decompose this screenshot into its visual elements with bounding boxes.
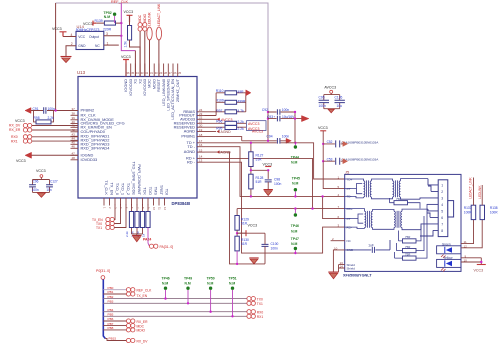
wire W1 AVCC3 filter rail <box>242 140 286 142</box>
svg-text:MDIO: MDIO <box>137 329 146 333</box>
wire W4 RD+ <box>205 158 313 208</box>
wire GND pin to ground <box>333 250 344 272</box>
svg-text:AVCC3: AVCC3 <box>324 85 336 89</box>
capacitor C100 100n <box>262 244 269 246</box>
svg-text:TX_CLK: TX_CLK <box>104 180 109 195</box>
svg-text:TP44: TP44 <box>291 155 299 159</box>
svg-text:TX0: TX0 <box>257 297 263 301</box>
svg-text:499R: 499R <box>238 99 247 103</box>
oscillator U14 <box>76 31 104 49</box>
svg-text:R98: R98 <box>34 116 40 120</box>
svg-text:25MHZ_OUT: 25MHZ_OUT <box>175 78 180 102</box>
svg-text:N.M: N.M <box>291 161 297 165</box>
svg-text:XF6500BYGNLT: XF6500BYGNLT <box>343 273 372 277</box>
svg-text:RX_DV: RX_DV <box>137 339 149 343</box>
svg-text:VCC3: VCC3 <box>83 22 93 26</box>
U13 top pin numbers <box>127 71 182 75</box>
svg-text:46: 46 <box>72 145 76 149</box>
power arrow at R110 right <box>246 90 251 96</box>
svg-text:RX_ER: RX_ER <box>137 320 149 324</box>
svg-text:LEDACT_LINK: LEDACT_LINK <box>469 176 473 198</box>
svg-text:LEDACT_LINK: LEDACT_LINK <box>157 3 161 26</box>
power arrow VCC at C93 <box>302 116 309 122</box>
svg-text:N.M: N.M <box>291 242 297 246</box>
capacitor C53 (part number) <box>323 160 342 162</box>
svg-text:2: 2 <box>71 42 73 46</box>
svg-text:TX_EN: TX_EN <box>137 294 148 298</box>
svg-text:220R: 220R <box>103 27 112 31</box>
svg-text:N.M: N.M <box>185 281 191 285</box>
svg-text:TRST: TRST <box>159 185 164 196</box>
svg-text:C52: C52 <box>327 140 333 144</box>
svg-text:100n: 100n <box>274 182 282 186</box>
testpoint TP44 <box>294 143 296 146</box>
node R127/R128 with VCC3 <box>251 167 268 179</box>
resistor R129 51R <box>236 209 238 216</box>
svg-text:6: 6 <box>441 216 443 220</box>
svg-text:C93: C93 <box>267 115 273 119</box>
ground under C98 <box>267 182 269 190</box>
wire W2 TD+ <box>205 143 345 179</box>
svg-text:RXD_3/PHYAD4: RXD_3/PHYAD4 <box>81 145 111 150</box>
resistor R95 2.2k row <box>205 126 247 128</box>
svg-text:TXD_0: TXD_0 <box>115 183 120 196</box>
resistor pulldown 2.2k (3) <box>142 204 144 234</box>
net AVCC3 at AVDD33 <box>205 118 220 120</box>
capacitor C92 100n <box>268 111 295 113</box>
svg-text:PA[31..0]: PA[31..0] <box>160 245 174 249</box>
power VCC3 bottom right <box>477 264 486 266</box>
svg-text:2.2k: 2.2k <box>238 120 245 124</box>
svg-text:19: 19 <box>199 128 203 132</box>
wire VCC3 vertical left <box>55 3 57 111</box>
net RX1 offpage right <box>247 314 256 318</box>
wire U14 pin 1 NC stub <box>104 44 119 46</box>
svg-text:1uF: 1uF <box>368 243 374 247</box>
svg-text:N.M: N.M <box>229 281 235 285</box>
svg-text:N.M: N.M <box>292 182 298 186</box>
svg-text:1: 1 <box>441 183 443 187</box>
capacitor C91 100n (series on PFBIN2) <box>43 107 47 114</box>
svg-text:AGND: AGND <box>221 130 232 134</box>
wire pins 9/10 to VCC3 <box>461 258 481 265</box>
svg-text:TX_EN: TX_EN <box>110 182 115 195</box>
capacitor C93 10u/16V <box>268 118 302 120</box>
svg-text:4.7k: 4.7k <box>238 109 245 113</box>
svg-text:N.M: N.M <box>291 229 297 233</box>
svg-text:2.2k: 2.2k <box>125 231 129 237</box>
U13 left pin numbers <box>72 107 76 160</box>
svg-text:C96: C96 <box>33 180 39 184</box>
svg-text:18: 18 <box>199 133 203 137</box>
ground under J5 <box>328 271 338 273</box>
svg-text:RX_ER: RX_ER <box>9 128 21 132</box>
svg-text:49R: 49R <box>238 90 245 94</box>
resistor R137 100R <box>471 205 476 219</box>
svg-text:RX_DV: RX_DV <box>9 124 21 128</box>
wires into pin block <box>420 179 438 236</box>
svg-text:100R: 100R <box>490 210 498 214</box>
svg-text:TDO: TDO <box>148 187 153 195</box>
bus P0 vertical <box>103 279 105 338</box>
J5 left pin labels <box>347 177 356 270</box>
svg-text:C53: C53 <box>327 158 333 162</box>
svg-text:C127: C127 <box>50 180 58 184</box>
svg-text:AGND: AGND <box>184 149 195 154</box>
U13 bottom pin labels (vertical) <box>104 161 170 195</box>
svg-text:TX1: TX1 <box>96 226 102 230</box>
node R129/R130 with VCC3 <box>237 230 246 236</box>
U13 left pin stubs <box>71 111 79 160</box>
svg-text:TMS: TMS <box>154 187 159 196</box>
svg-text:VCC3: VCC3 <box>263 163 273 167</box>
svg-text:1: 1 <box>107 41 109 45</box>
wire U14 pin 2 to ground <box>66 46 76 57</box>
svg-text:LEDLINK: LEDLINK <box>148 11 152 26</box>
svg-text:P0[31..0]: P0[31..0] <box>96 269 110 273</box>
svg-text:DP83848I: DP83848I <box>172 201 191 206</box>
svg-text:VCC3: VCC3 <box>52 27 62 31</box>
ground below U14 <box>61 56 72 58</box>
svg-text:TP49: TP49 <box>184 276 192 280</box>
svg-text:TP47: TP47 <box>291 237 299 241</box>
svg-text:RX0: RX0 <box>257 310 264 314</box>
svg-text:N.M: N.M <box>207 281 213 285</box>
wire REF_CLK top rail (lavender) <box>56 3 268 111</box>
net AGND at pin 19 <box>205 131 217 133</box>
net AGND at pin 15 + rail to bottom cluster <box>205 152 266 264</box>
svg-text:RX1: RX1 <box>11 139 18 143</box>
U13 left pin labels <box>81 108 125 162</box>
svg-text:R97: R97 <box>216 109 222 113</box>
wire U14 pin 3 output <box>104 35 122 37</box>
svg-text:TDI: TDI <box>165 189 170 195</box>
svg-text:TP45: TP45 <box>292 176 300 180</box>
ground under decap pair <box>37 193 45 198</box>
capacitor C94 100n (on W1) <box>277 138 281 144</box>
svg-text:TP51: TP51 <box>229 276 237 280</box>
wire PFBIN1 to W1 <box>205 137 242 141</box>
svg-text:R109: R109 <box>216 99 224 103</box>
svg-text:VCC: VCC <box>78 35 86 39</box>
svg-text:100n: 100n <box>32 188 39 192</box>
svg-text:LEDLINK: LEDLINK <box>478 185 482 199</box>
svg-text:VCC3: VCC3 <box>121 55 131 59</box>
svg-text:PWR_DOWN/INT: PWR_DOWN/INT <box>137 164 142 196</box>
resistor R128 51R <box>249 174 253 189</box>
wire CT6 jog <box>323 196 345 218</box>
svg-text:MDC: MDC <box>138 14 142 22</box>
svg-text:48: 48 <box>72 156 76 160</box>
svg-text:VCC3: VCC3 <box>474 268 484 272</box>
svg-text:C92: C92 <box>262 108 268 112</box>
svg-text:TXD_1: TXD_1 <box>121 183 126 195</box>
svg-text:100R: 100R <box>464 210 472 214</box>
svg-text:REF_CLK: REF_CLK <box>137 289 153 293</box>
svg-text:15: 15 <box>199 148 203 152</box>
bus entry PA[31..0] <box>148 228 149 247</box>
svg-text:C100: C100 <box>271 242 279 246</box>
J5 left pin numbers <box>332 175 343 268</box>
ground under lower cluster <box>249 257 258 259</box>
svg-text:+: + <box>274 115 276 119</box>
svg-text:VCC3: VCC3 <box>16 159 26 163</box>
transformer TX windings <box>345 179 428 200</box>
svg-text:10u: 10u <box>337 104 343 108</box>
svg-text:N.M: N.M <box>162 281 168 285</box>
svg-text:16: 16 <box>199 143 203 147</box>
svg-text:R139: R139 <box>95 19 103 23</box>
svg-text:R110: R110 <box>216 89 224 93</box>
svg-text:TD -: TD - <box>187 144 195 149</box>
wire join pulldowns to ground <box>132 234 143 236</box>
svg-text:Output: Output <box>89 35 99 39</box>
svg-text:2: 2 <box>441 190 443 194</box>
wire right vertical x295 <box>294 112 296 143</box>
wire right vertical joining resistor rights <box>245 93 247 112</box>
svg-text:AVCC3: AVCC3 <box>248 122 259 126</box>
svg-text:38: 38 <box>72 112 76 116</box>
svg-text:51R: 51R <box>256 180 263 184</box>
svg-text:5: 5 <box>441 209 443 213</box>
wire joining R110/R109 lefts down to PFBOUT <box>205 93 217 116</box>
svg-text:PFBIN1: PFBIN1 <box>181 134 195 139</box>
resistor pulldown 2.2k (1) <box>131 204 133 234</box>
svg-text:N.M: N.M <box>104 15 110 19</box>
net TX0 offpage right <box>247 297 256 301</box>
resistor R97 4.7k on RBIAS <box>205 111 246 113</box>
svg-text:10n: 10n <box>46 188 52 192</box>
svg-text:C126: C126 <box>335 95 343 99</box>
svg-text:100n: 100n <box>282 108 290 112</box>
svg-text:VCC3: VCC3 <box>15 119 25 123</box>
RJ45 pin block <box>438 180 448 237</box>
svg-text:MDIO: MDIO <box>143 13 147 22</box>
capacitor C127 10n <box>46 185 53 187</box>
resistor R136 1.5k vertical <box>128 26 132 41</box>
svg-text:100n: 100n <box>271 247 279 251</box>
svg-text:51R: 51R <box>256 158 263 162</box>
wire VCC3 column at x268 <box>267 111 269 141</box>
svg-text:VCC3: VCC3 <box>318 126 328 130</box>
svg-text:3: 3 <box>441 196 443 200</box>
svg-text:50MHzCFPS73: 50MHzCFPS73 <box>76 28 100 32</box>
svg-text:C95: C95 <box>319 95 325 99</box>
wire shield stubs <box>339 265 345 272</box>
resistor R130 51R <box>235 236 239 251</box>
svg-text:TXD_3/SNI_MODE: TXD_3/SNI_MODE <box>132 161 137 195</box>
svg-text:3: 3 <box>106 32 108 36</box>
svg-text:C98: C98 <box>274 177 280 181</box>
connector J5 RJ45 magnetics box <box>345 174 461 271</box>
U13 right pin numbers <box>199 108 203 162</box>
resistor R98 2.2k (parallel below) <box>34 111 54 122</box>
svg-text:REF_CLK: REF_CLK <box>111 0 129 4</box>
net RX0 offpage right <box>247 310 256 314</box>
svg-text:TP46: TP46 <box>162 276 170 280</box>
wire W5 RD+ rail <box>237 208 345 210</box>
svg-text:1.5k: 1.5k <box>124 41 128 48</box>
resistor R109 499R <box>216 101 246 103</box>
svg-text:VCC3: VCC3 <box>124 10 134 14</box>
svg-text:8: 8 <box>441 229 443 233</box>
svg-text:PA24: PA24 <box>143 237 151 241</box>
svg-text:100n: 100n <box>282 135 290 139</box>
power arrow VCC3 at IOGND row <box>25 152 32 158</box>
svg-text:TXD_2: TXD_2 <box>126 183 131 195</box>
svg-text:RX1: RX1 <box>257 315 264 319</box>
svg-text:TCK: TCK <box>143 187 148 195</box>
wire REF_CLK magenta drop to X1 <box>121 3 135 51</box>
svg-text:4: 4 <box>71 33 73 37</box>
svg-text:GND: GND <box>78 44 86 48</box>
svg-text:IOVDD33: IOVDD33 <box>81 157 98 162</box>
bus entry circle <box>101 276 105 280</box>
svg-text:13: 13 <box>199 159 203 163</box>
ground mid of decap pair <box>328 109 334 113</box>
wire U14 pin 4 <box>63 36 76 38</box>
left side: power arrow VCC3 at PFBIN2 <box>25 108 31 114</box>
wire pin11 to R137 <box>461 220 474 244</box>
svg-text:AVCC3: AVCC3 <box>252 129 263 133</box>
IC U13 <box>78 77 197 199</box>
svg-text:R96: R96 <box>216 120 222 124</box>
wire W3 TD- <box>205 147 345 197</box>
svg-text:TP46: TP46 <box>291 224 299 228</box>
capacitor C98 100n <box>265 180 272 182</box>
J5 right pin numbers <box>464 240 468 262</box>
svg-text:VCC3: VCC3 <box>36 169 46 173</box>
U13 top pin stubs <box>126 64 178 77</box>
capacitor C96 100n <box>29 185 36 187</box>
capacitor C95 100n <box>319 100 329 102</box>
capacitor C52 (part number) <box>323 143 342 145</box>
svg-text:10u/16V: 10u/16V <box>282 115 295 119</box>
wire pin12 to R138 <box>461 220 482 248</box>
svg-text:VCC3: VCC3 <box>248 224 258 228</box>
testpoint TP46 <box>294 207 296 209</box>
svg-text:Shield: Shield <box>347 266 356 270</box>
svg-text:7: 7 <box>441 222 443 226</box>
ground under pulldowns <box>132 235 141 237</box>
svg-text:2.2k: 2.2k <box>238 127 245 131</box>
svg-text:TX1: TX1 <box>257 302 263 306</box>
U13 right pin stubs <box>197 112 205 162</box>
svg-text:51R: 51R <box>241 242 248 246</box>
transformer RX windings <box>345 209 428 230</box>
resistor R110 49R <box>216 92 246 94</box>
net TX1 offpage right <box>247 301 256 305</box>
resistor pulldown 2.2k (2) <box>136 204 138 234</box>
svg-text:C94: C94 <box>267 135 273 139</box>
svg-text:TP50: TP50 <box>207 276 215 280</box>
svg-text:100n: 100n <box>319 104 327 108</box>
capacitor C126 10u <box>335 100 345 102</box>
U13 bottom pin numbers (vertical) <box>103 207 168 210</box>
U13 right pin labels <box>174 109 196 164</box>
svg-text:RD -: RD - <box>187 159 196 164</box>
wire NC stub <box>331 240 345 242</box>
resistor R138 100R <box>480 205 485 219</box>
resistor pulldown 1k (4) <box>147 204 149 212</box>
svg-text:U13: U13 <box>77 70 86 75</box>
wire W6 RD- <box>205 162 345 253</box>
svg-text:AGND: AGND <box>221 151 232 155</box>
resistor R127 51R <box>250 143 252 152</box>
U13 top pin labels (vertical) <box>123 78 180 119</box>
svg-text:4: 4 <box>441 203 443 207</box>
U13 bottom pin stubs <box>104 198 165 206</box>
svg-text:NC: NC <box>95 44 100 48</box>
power circle VCC3 decap pair bottom-left <box>40 175 43 178</box>
resistor R96 2.2k row <box>205 122 247 124</box>
svg-text:2.2k: 2.2k <box>48 116 55 120</box>
